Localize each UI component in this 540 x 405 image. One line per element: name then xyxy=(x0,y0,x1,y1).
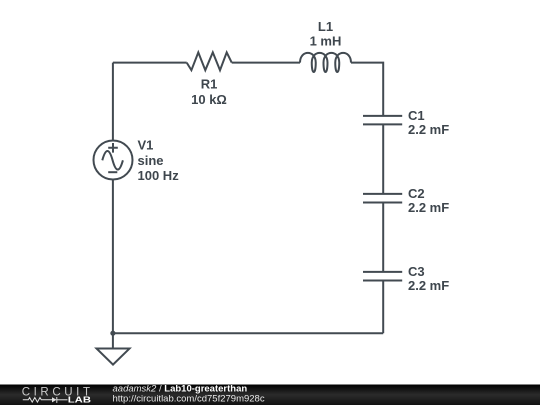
svg-text:10 kΩ: 10 kΩ xyxy=(191,92,227,107)
svg-text:2.2 mF: 2.2 mF xyxy=(408,278,449,293)
svg-text:100 Hz: 100 Hz xyxy=(138,168,180,183)
svg-text:R1: R1 xyxy=(201,77,218,92)
svg-text:C1: C1 xyxy=(408,108,425,123)
svg-text:2.2 mF: 2.2 mF xyxy=(408,200,449,215)
svg-text:LAB: LAB xyxy=(68,396,91,405)
svg-text:C3: C3 xyxy=(408,264,425,279)
svg-text:L1: L1 xyxy=(318,19,333,34)
svg-text:http://circuitlab.com/cd75f279: http://circuitlab.com/cd75f279m928c xyxy=(113,394,265,405)
svg-text:2.2 mF: 2.2 mF xyxy=(408,122,449,137)
svg-text:1 mH: 1 mH xyxy=(310,34,342,49)
svg-text:sine: sine xyxy=(138,153,164,168)
svg-text:V1: V1 xyxy=(138,138,154,153)
svg-text:C2: C2 xyxy=(408,186,425,201)
